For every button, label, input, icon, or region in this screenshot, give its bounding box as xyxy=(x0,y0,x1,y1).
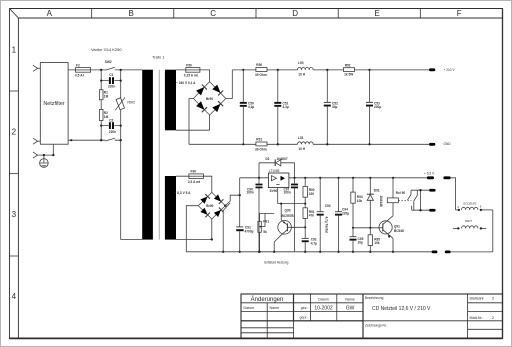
node C93 ground xyxy=(319,251,321,253)
mains input connector L xyxy=(33,65,38,71)
capacitor C94 xyxy=(335,178,342,252)
svg-text:220n: 220n xyxy=(109,130,116,134)
node C2 left xyxy=(100,125,102,127)
svg-text:10 H: 10 H xyxy=(298,147,305,151)
node C51 top xyxy=(277,69,279,71)
svg-text:33µ: 33µ xyxy=(332,105,338,109)
svg-text:100n: 100n xyxy=(284,191,291,195)
inductor L51 xyxy=(298,142,314,145)
trimmer P91 xyxy=(258,214,274,252)
node Br90 plus xyxy=(224,205,226,207)
inductor L50 xyxy=(298,67,314,70)
node Q91 emitter ground xyxy=(392,251,394,253)
svg-text:6V90: 6V90 xyxy=(270,189,278,193)
svg-text:Trafo 1: Trafo 1 xyxy=(152,55,165,60)
node switch right xyxy=(120,69,122,71)
svg-text:L51: L51 xyxy=(298,136,304,140)
fuse F2 xyxy=(76,68,91,73)
node D91 top xyxy=(369,177,371,179)
resistor R51 xyxy=(256,142,267,146)
node C93 top xyxy=(319,177,321,179)
svg-text:1N4148: 1N4148 xyxy=(379,196,383,207)
svg-text:Datum: Datum xyxy=(244,306,255,310)
title block horizontal row lines xyxy=(241,303,503,333)
svg-text:Zeichnungs-Nr.:: Zeichnungs-Nr.: xyxy=(365,324,388,328)
sheet right line xyxy=(502,9,504,339)
node Q90 emitter adj xyxy=(280,203,282,205)
wire Br90 plus to raw rail xyxy=(225,195,239,206)
terminal contact out 2 xyxy=(429,209,436,212)
mains input connector PE xyxy=(33,152,38,158)
heater winding ECC81 xyxy=(456,207,493,211)
wire LV secondary top xyxy=(176,176,212,192)
resistor R2 xyxy=(99,109,103,120)
svg-text:Rel 90: Rel 90 xyxy=(396,191,406,195)
svg-text:F2: F2 xyxy=(76,63,80,67)
svg-text:P91: P91 xyxy=(263,219,269,223)
svg-text:C: C xyxy=(210,9,216,18)
relay contact K1 xyxy=(408,190,430,210)
wire D1 bypass xyxy=(259,163,295,178)
svg-text:+ 210 V: + 210 V xyxy=(444,68,456,72)
svg-text:Q90: Q90 xyxy=(285,209,291,213)
relay coil Rel90 xyxy=(387,178,398,203)
frame corner bevel xyxy=(10,9,19,19)
wire 6V3 to heater xyxy=(451,178,456,210)
wire LV secondary bottom xyxy=(176,219,212,239)
node LV AC bottom junction xyxy=(211,238,213,240)
transistor Q90 BC557B xyxy=(274,204,305,252)
varistor VDR2 xyxy=(115,98,125,111)
wire Br50 minus to gnd rail xyxy=(189,99,193,145)
node C92 ground xyxy=(304,251,306,253)
capacitor C1 xyxy=(101,77,121,84)
svg-text:C2: C2 xyxy=(109,119,113,123)
capacitor C51 xyxy=(274,70,281,144)
capacitor C93 tantal xyxy=(317,178,324,252)
resistor R90 xyxy=(303,178,307,204)
transformer T1 secondary 240V winding bar xyxy=(165,70,176,131)
svg-text:220n: 220n xyxy=(108,84,115,88)
node neutral box xyxy=(70,139,72,141)
node C52 bottom xyxy=(326,143,328,145)
node relay coil top xyxy=(392,177,394,179)
switch SW2 upper pole xyxy=(105,67,115,70)
svg-text:1N4007: 1N4007 xyxy=(277,157,288,161)
svg-text:A: A xyxy=(47,9,53,18)
node raw rail junction xyxy=(239,194,241,196)
wire varistor chain right xyxy=(120,70,122,140)
capacitor C50 xyxy=(240,70,247,144)
capacitor C2 xyxy=(101,122,121,129)
svg-text:39 Ohm: 39 Ohm xyxy=(255,73,267,77)
line filter box Netzfilter xyxy=(40,63,68,145)
node adj R90 junction xyxy=(304,203,306,205)
node C90 top xyxy=(258,177,260,179)
node C94 ground xyxy=(337,251,339,253)
node C90 ground xyxy=(258,251,260,253)
node C53 bottom xyxy=(368,143,370,145)
bridge rectifier Br50 xyxy=(193,82,225,116)
svg-text:0,15 A mt: 0,15 A mt xyxy=(184,74,199,78)
svg-text:gepr.:: gepr.: xyxy=(300,315,309,319)
node C2 right xyxy=(120,125,122,127)
capacitor C92 xyxy=(302,227,309,252)
svg-text:Datum: Datum xyxy=(318,298,329,302)
svg-text:4: 4 xyxy=(12,292,17,301)
svg-text:GW: GW xyxy=(346,306,355,312)
svg-text:5k: 5k xyxy=(263,230,267,234)
node C91 ground xyxy=(239,251,241,253)
svg-text:1M: 1M xyxy=(104,115,109,119)
svg-text:10-2002: 10-2002 xyxy=(314,306,333,312)
svg-text:2,5 A mt: 2,5 A mt xyxy=(188,180,201,184)
svg-text:L50: L50 xyxy=(298,61,304,65)
svg-text:Name: Name xyxy=(270,306,280,310)
node Q90 base junction xyxy=(304,226,306,228)
svg-text:10 H: 10 H xyxy=(298,73,305,77)
svg-text:220µ: 220µ xyxy=(342,212,349,216)
node VDR2 bottom xyxy=(120,139,122,141)
capacitor C95 xyxy=(350,228,357,252)
terminal +210V xyxy=(429,68,435,71)
node R94 C95 junction xyxy=(352,227,354,229)
wire HV secondary bottom xyxy=(176,115,210,130)
node P91 ground xyxy=(258,251,260,253)
svg-text:~ 8,3 V 5 A: ~ 8,3 V 5 A xyxy=(175,191,192,195)
svg-text:gez.:: gez.: xyxy=(301,306,309,310)
transformer T1 secondary 8.3V winding bar xyxy=(165,176,176,240)
title block outline xyxy=(241,294,503,338)
mains input connector N xyxy=(33,138,38,144)
svg-text:CD Netzteil 12,6 V / 210 V: CD Netzteil 12,6 V / 210 V xyxy=(372,306,431,312)
fuse F90 xyxy=(189,174,204,179)
wire Br50 plus up to HV rail xyxy=(226,70,233,99)
wire Q91 base rail xyxy=(353,227,379,229)
relay actuator dashed link xyxy=(398,199,411,201)
node contact bus bottom xyxy=(419,209,421,211)
svg-text:D: D xyxy=(292,9,298,18)
column tick marks xyxy=(92,9,421,19)
bridge rectifier Br90 xyxy=(198,192,225,219)
wire ground rail xyxy=(186,251,493,253)
wire 210V plus rail xyxy=(232,69,429,71)
node R2 bottom xyxy=(100,139,102,141)
terminal ground plug left xyxy=(432,251,438,254)
svg-text:100n: 100n xyxy=(247,191,254,195)
diode D1 xyxy=(275,159,281,166)
svg-text:E: E xyxy=(375,9,380,18)
svg-text:C1: C1 xyxy=(109,73,113,77)
svg-text:D1: D1 xyxy=(266,157,270,161)
capacitor C53 xyxy=(366,70,373,144)
svg-text:39 Ohm: 39 Ohm xyxy=(255,147,267,151)
node C95 ground xyxy=(352,251,354,253)
svg-text:Änderungen: Änderungen xyxy=(251,296,284,303)
node C94 top xyxy=(337,177,339,179)
svg-text:220µ: 220µ xyxy=(374,105,381,109)
svg-text:1: 1 xyxy=(12,45,17,54)
svg-text:C93: C93 xyxy=(325,204,331,208)
svg-text:F: F xyxy=(457,9,462,18)
wire 6V3 output rail xyxy=(289,177,427,179)
resistor R91 xyxy=(303,204,307,228)
svg-text:LT1085: LT1085 xyxy=(269,169,280,173)
resistor R1 xyxy=(99,90,103,100)
terminal 6V3 plug right xyxy=(443,176,450,179)
terminal ground plug right xyxy=(445,251,451,254)
svg-text:R50: R50 xyxy=(256,63,262,67)
svg-text:~ 240 V 0,1 A: ~ 240 V 0,1 A xyxy=(176,81,196,85)
svg-text:4,7µ: 4,7µ xyxy=(311,242,317,246)
node Q90 collector ground xyxy=(273,251,275,253)
relay contact K2 xyxy=(412,190,429,210)
svg-text:10k: 10k xyxy=(357,199,363,203)
svg-text:4,7µ Tantal: 4,7µ Tantal xyxy=(325,217,329,233)
svg-text:0,5 A t: 0,5 A t xyxy=(75,73,85,77)
svg-text:6SN7: 6SN7 xyxy=(465,219,472,223)
wire xyxy=(38,67,41,69)
svg-text:Name: Name xyxy=(345,298,355,302)
svg-text:220: 220 xyxy=(309,192,315,196)
svg-text:Netzfilter: Netzfilter xyxy=(43,101,64,107)
node C1 left xyxy=(100,80,102,82)
svg-text:1M: 1M xyxy=(104,95,109,99)
node C50 top xyxy=(242,69,244,71)
fuse F50 xyxy=(186,68,200,73)
svg-text:BC548: BC548 xyxy=(394,229,404,233)
wire 210V gnd rail xyxy=(189,143,429,145)
wire regulator adj xyxy=(278,188,306,204)
svg-text:10k: 10k xyxy=(374,241,380,245)
wire neutral rail xyxy=(68,139,121,141)
node jog ground xyxy=(222,251,224,253)
wire xyxy=(38,144,54,159)
svg-text:Br90: Br90 xyxy=(206,204,213,208)
node PE junction xyxy=(43,154,45,156)
capacitor C91 xyxy=(236,178,243,252)
node switch left xyxy=(100,69,102,71)
svg-text:3,3µ: 3,3µ xyxy=(283,105,289,109)
svg-text:Bezeichnung: Bezeichnung xyxy=(365,296,384,300)
svg-text:Varitor G14 K250: Varitor G14 K250 xyxy=(91,47,122,52)
svg-text:R52: R52 xyxy=(345,64,351,68)
wire neutral to primary bottom xyxy=(121,140,143,239)
node R95 ground xyxy=(369,251,371,253)
svg-text:Br50: Br50 xyxy=(206,97,213,101)
node filter earth junction xyxy=(52,154,54,156)
switch SW2 lower pole xyxy=(105,138,115,141)
sheet bottom thick line xyxy=(10,337,503,339)
heater winding 6SN7 xyxy=(453,226,486,230)
svg-text:Q91: Q91 xyxy=(394,225,400,229)
resistor R50 xyxy=(256,68,267,72)
svg-text:+ 6,3 V: + 6,3 V xyxy=(424,171,435,175)
ground earth symbol xyxy=(40,159,49,168)
node R94 top xyxy=(352,177,354,179)
transistor Q91 BC548 xyxy=(379,203,393,252)
node contact bus top xyxy=(419,189,421,191)
wire softstart jog to ground xyxy=(223,203,230,252)
voltage regulator U90 LT1085 xyxy=(268,173,289,188)
wire HV secondary top xyxy=(176,70,210,82)
svg-text:2: 2 xyxy=(12,128,17,137)
wire Br90 minus to ground rail xyxy=(186,206,198,252)
title block vertical lines xyxy=(267,294,467,338)
svg-text:SW2: SW2 xyxy=(105,60,112,64)
terminal 6V3 plug left xyxy=(427,176,434,179)
svg-text:F90: F90 xyxy=(191,169,197,173)
capacitor C90 xyxy=(256,178,263,252)
wire heater return xyxy=(492,210,494,252)
transformer core line xyxy=(158,70,160,240)
svg-text:4700µ: 4700µ xyxy=(245,230,254,234)
node C97 out xyxy=(293,177,295,179)
svg-text:Blattzahl:: Blattzahl: xyxy=(470,297,485,301)
svg-text:D91: D91 xyxy=(374,189,380,193)
svg-text:Softstart Heizung: Softstart Heizung xyxy=(264,260,289,264)
svg-text:B: B xyxy=(129,9,134,18)
svg-text:10µ: 10µ xyxy=(358,241,364,245)
node C51 bottom xyxy=(277,143,279,145)
node C53 top xyxy=(368,69,370,71)
svg-text:ECC81/82: ECC81/82 xyxy=(464,202,477,206)
svg-text:3,3µ: 3,3µ xyxy=(248,105,254,109)
title block heavy inner line xyxy=(241,294,363,338)
terminal contact out 1 xyxy=(429,189,436,192)
svg-text:Blatt-Nr.:: Blatt-Nr.: xyxy=(470,316,484,320)
wire xyxy=(38,140,41,142)
resistor R95 xyxy=(368,228,372,252)
svg-text:47k: 47k xyxy=(309,214,315,218)
resistor R52 xyxy=(344,68,355,72)
capacitor C52 xyxy=(324,70,331,144)
svg-text:1k 5W: 1k 5W xyxy=(344,72,353,76)
row tick marks xyxy=(10,91,19,256)
node D91 base junction xyxy=(369,227,371,229)
svg-text:R51: R51 xyxy=(256,138,262,142)
diode D91 xyxy=(367,178,374,228)
node R90 top xyxy=(304,177,306,179)
svg-text:GND: GND xyxy=(444,142,452,146)
svg-text:VDR2: VDR2 xyxy=(127,100,136,104)
node C52 top xyxy=(326,69,328,71)
svg-text:F50: F50 xyxy=(186,63,192,67)
wire raw rail to regulator xyxy=(240,177,269,179)
transformer T1 primary winding bar xyxy=(142,70,153,240)
svg-text:BC557B: BC557B xyxy=(282,214,295,218)
node C1 right xyxy=(120,80,122,82)
capacitor C97 xyxy=(291,178,298,252)
svg-text:3: 3 xyxy=(12,210,17,219)
node C50 bottom xyxy=(242,143,244,145)
terminal GND xyxy=(429,143,435,146)
wire bleeder chain left xyxy=(100,70,102,140)
wire phase rail xyxy=(68,69,142,71)
resistor R94 xyxy=(351,178,355,228)
